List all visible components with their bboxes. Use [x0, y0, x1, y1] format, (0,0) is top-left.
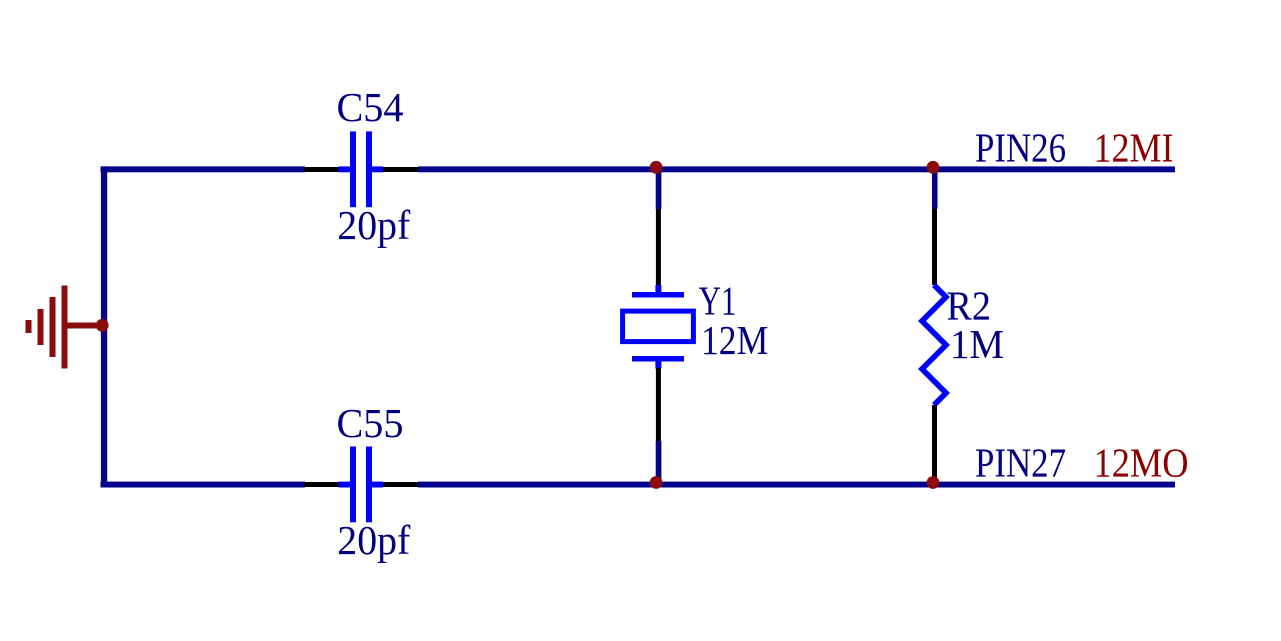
wire resistor top stub: [932, 168, 938, 209]
wire crystal bottom stub: [656, 441, 662, 485]
wire bottom bus left segment: [101, 482, 306, 488]
svg-text:PIN26: PIN26: [975, 125, 1066, 171]
node junction ground to rail: [96, 319, 109, 332]
svg-text:C55: C55: [337, 400, 404, 446]
wire top bus left segment: [101, 166, 306, 172]
svg-text:1M: 1M: [950, 321, 1004, 367]
node junction top resistor PIN26: [927, 161, 940, 174]
wire top bus right segment: [418, 166, 1175, 172]
svg-text:12MO: 12MO: [1094, 439, 1189, 485]
svg-text:PIN27: PIN27: [975, 439, 1066, 485]
svg-text:20pf: 20pf: [337, 517, 410, 563]
ground: [26, 286, 102, 369]
resistor R2: [922, 209, 946, 482]
wire bottom bus right segment: [418, 482, 1175, 488]
wire crystal top stub: [656, 168, 662, 209]
node junction bottom resistor PIN27: [927, 476, 940, 489]
svg-text:12MI: 12MI: [1094, 125, 1174, 171]
wire left vertical rail: [101, 166, 107, 487]
node junction bottom crystal: [650, 476, 663, 489]
capacitor C54: [304, 131, 418, 207]
crystal Y1: [623, 209, 694, 441]
capacitor C55: [304, 447, 418, 523]
svg-text:C54: C54: [337, 84, 404, 130]
svg-text:12M: 12M: [701, 317, 768, 363]
node junction top crystal: [650, 161, 663, 174]
svg-text:20pf: 20pf: [337, 202, 410, 248]
